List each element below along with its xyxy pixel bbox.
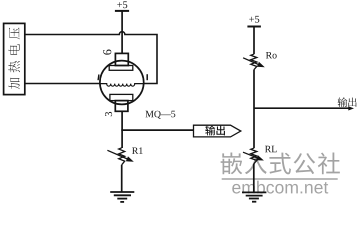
+5 supply (right) [249, 16, 259, 23]
label 输出 right [338, 97, 348, 107]
output callout 输出 [194, 125, 241, 137]
pin label 1 [97, 75, 100, 81]
wire W2 box to sensor left side [25, 83, 100, 85]
wire pin 3 down [121, 111, 123, 148]
output arrowhead [348, 106, 354, 110]
watermark 嵌入式公社 [221, 153, 243, 175]
wire +5 to Ro [253, 27, 255, 55]
ground (right) [242, 191, 266, 193]
wire +5 to pin 6 [121, 11, 123, 54]
heater coil [100, 84, 144, 87]
watermark divider line [222, 178, 338, 180]
wire Ro to RL [253, 70, 255, 148]
wire node to output callout [121, 129, 193, 131]
heater voltage box 加热电压 [4, 23, 25, 94]
bottom electrode [110, 94, 133, 100]
bottom pin pad [115, 101, 128, 112]
wire node to output right [254, 107, 349, 109]
pin label 3 [105, 112, 112, 116]
watermark embcom.net [232, 181, 328, 194]
label RL [265, 146, 277, 152]
pin label 4 [146, 74, 148, 80]
pin label 6 [103, 50, 111, 55]
resistor R1 (adjustable) [119, 148, 125, 165]
wire R1 to ground [121, 165, 123, 192]
resistor Ro (adjustable) [251, 54, 257, 70]
resistor RL (adjustable) [251, 148, 257, 164]
+5 supply (left) [117, 1, 127, 8]
label R1 [132, 147, 143, 153]
sensor MQ-5 envelope circle [100, 61, 144, 105]
top electrode [109, 66, 133, 71]
wire W1 box to sensor right side (hops over +5 wire) [25, 32, 157, 84]
label MQ-5 [145, 111, 175, 119]
wire RL to ground [253, 164, 255, 192]
ground (left) [110, 191, 134, 193]
label Ro [266, 52, 277, 59]
top pin pad [115, 53, 128, 65]
